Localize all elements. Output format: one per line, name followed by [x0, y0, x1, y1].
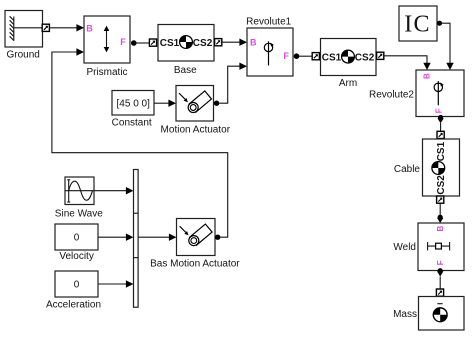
wire Revolute1 F to Arm CS1 — [299, 55, 312, 57]
Mass body icon — [433, 308, 447, 322]
arrowhead Revolute1 B2 — [239, 62, 247, 69]
body block Base — [158, 25, 214, 62]
svg-text:B: B — [436, 226, 445, 232]
wire IC to Revolute2 — [442, 23, 450, 63]
svg-text:Weld: Weld — [393, 242, 416, 253]
port square Cable CS1 — [437, 131, 444, 138]
actuator block Bas Motion Actuator — [177, 219, 216, 256]
wire Acceleration to Mux — [98, 283, 127, 285]
svg-text:Constant: Constant — [112, 117, 152, 128]
svg-text:Cable: Cable — [394, 164, 421, 175]
arrowhead into Prismatic B — [76, 24, 84, 31]
svg-text:0: 0 — [74, 280, 80, 291]
wire Sine Wave to Mux — [94, 190, 127, 192]
svg-text:F: F — [436, 260, 445, 265]
svg-text:Bas Motion Actuator: Bas Motion Actuator — [150, 258, 240, 269]
wire Weld to Mass — [439, 277, 441, 290]
svg-text:0: 0 — [74, 233, 80, 244]
wire Bas Motion Actuator to Prismatic B2 feedback — [52, 52, 228, 237]
port square Base CS2 — [215, 39, 222, 46]
Arm body icon — [342, 50, 355, 63]
arrowhead Motion Actuator in — [168, 100, 176, 107]
wire Mux to Bas Motion Actuator — [138, 236, 169, 238]
joint Weld — [418, 223, 464, 271]
ground block Ground — [5, 11, 43, 48]
svg-text:Sine Wave: Sine Wave — [55, 209, 103, 220]
port dot Motion Actuator out — [214, 101, 219, 106]
Base body icon — [180, 36, 193, 49]
port square Arm CS2 — [377, 52, 384, 59]
Weld icon — [428, 242, 450, 250]
arrowhead into Revolute1 B — [239, 39, 247, 46]
port marker into Weld B — [437, 215, 443, 223]
joint Revolute1 — [247, 28, 293, 76]
Mass CS1 tick — [437, 303, 442, 305]
block IC — [399, 6, 437, 41]
svg-text:F: F — [434, 108, 443, 113]
wire Constant to Motion Actuator — [154, 102, 169, 104]
Prismatic icon double arrow — [104, 26, 110, 53]
arrowhead Bas Motion Actuator in — [169, 234, 177, 241]
svg-text:B: B — [250, 37, 257, 47]
wire Revolute2 to Cable — [440, 123, 442, 131]
arrowhead Mux in3 — [126, 280, 134, 287]
wire Motion Actuator to Revolute1 B2 — [219, 66, 240, 103]
port marker Revolute2 F out — [437, 115, 443, 123]
svg-text:Prismatic: Prismatic — [86, 67, 127, 78]
svg-text:[45 0 0]: [45 0 0] — [117, 99, 151, 110]
arrowhead Prismatic B2 — [76, 48, 84, 55]
svg-text:Revolute1: Revolute1 — [246, 17, 291, 28]
port square Cable CS2 — [437, 196, 444, 203]
svg-text:F: F — [283, 51, 289, 61]
source block Sine Wave — [65, 177, 94, 205]
port square Arm CS1 — [312, 53, 319, 60]
port dot IC out — [437, 21, 442, 26]
joint Revolute2 — [416, 70, 464, 117]
wire Arm CS2 to Revolute2 B — [384, 56, 427, 63]
port dot Bas Motion Actuator out — [215, 235, 220, 240]
svg-text:Base: Base — [174, 65, 197, 76]
body block Cable — [423, 139, 460, 196]
wire Prismatic F to Base CS1 — [136, 42, 150, 44]
svg-text:CS1: CS1 — [322, 52, 342, 63]
joint Prismatic — [84, 16, 130, 63]
mux Mux — [133, 170, 139, 308]
svg-text:CS2: CS2 — [355, 52, 375, 63]
wire Cable to Weld — [439, 203, 441, 215]
port dot Revolute1 F — [294, 53, 300, 59]
wire Ground to Prismatic B — [49, 27, 77, 29]
svg-text:CS1: CS1 — [436, 141, 447, 161]
svg-text:Acceleration: Acceleration — [46, 300, 101, 311]
svg-text:F: F — [120, 37, 126, 47]
Revolute1 icon — [264, 41, 274, 65]
Revolute2 icon — [434, 81, 444, 105]
svg-text:Ground: Ground — [7, 49, 40, 60]
port square Mass CS1 — [436, 289, 443, 296]
body block Mass — [419, 297, 465, 331]
arrowhead Mux in2 — [126, 234, 134, 241]
port square Base CS1 — [149, 39, 156, 46]
svg-text:IC: IC — [404, 12, 430, 38]
Motion Actuator icon — [179, 91, 212, 113]
svg-text:B: B — [422, 73, 431, 79]
svg-text:CS2: CS2 — [193, 38, 213, 49]
svg-text:Arm: Arm — [339, 78, 357, 89]
wire Velocity to Mux — [98, 236, 127, 238]
Cable body icon — [432, 162, 445, 175]
constant block Acceleration — [55, 271, 98, 297]
Bas Motion Actuator icon — [180, 224, 213, 246]
constant block Constant — [112, 91, 154, 116]
actuator block Motion Actuator — [176, 86, 214, 122]
body block Arm — [321, 39, 377, 76]
arrowhead down into Revolute2 right port — [446, 63, 453, 70]
svg-text:Mass: Mass — [393, 309, 417, 320]
svg-text:CS1: CS1 — [160, 38, 180, 49]
constant block Velocity — [55, 224, 98, 250]
port square Ground out — [42, 24, 49, 31]
svg-text:CS2: CS2 — [436, 175, 447, 195]
svg-text:B: B — [86, 23, 93, 33]
arrowhead Mux in1 — [126, 187, 134, 194]
wire Base CS2 to Revolute1 B — [222, 41, 240, 43]
svg-text:Revolute2: Revolute2 — [369, 89, 414, 100]
svg-text:Velocity: Velocity — [59, 251, 93, 262]
port dot Prismatic F — [131, 40, 137, 46]
port marker Weld F out — [437, 268, 443, 276]
arrowhead down into Revolute2 left port — [423, 63, 430, 70]
svg-text:Motion Actuator: Motion Actuator — [161, 124, 231, 135]
